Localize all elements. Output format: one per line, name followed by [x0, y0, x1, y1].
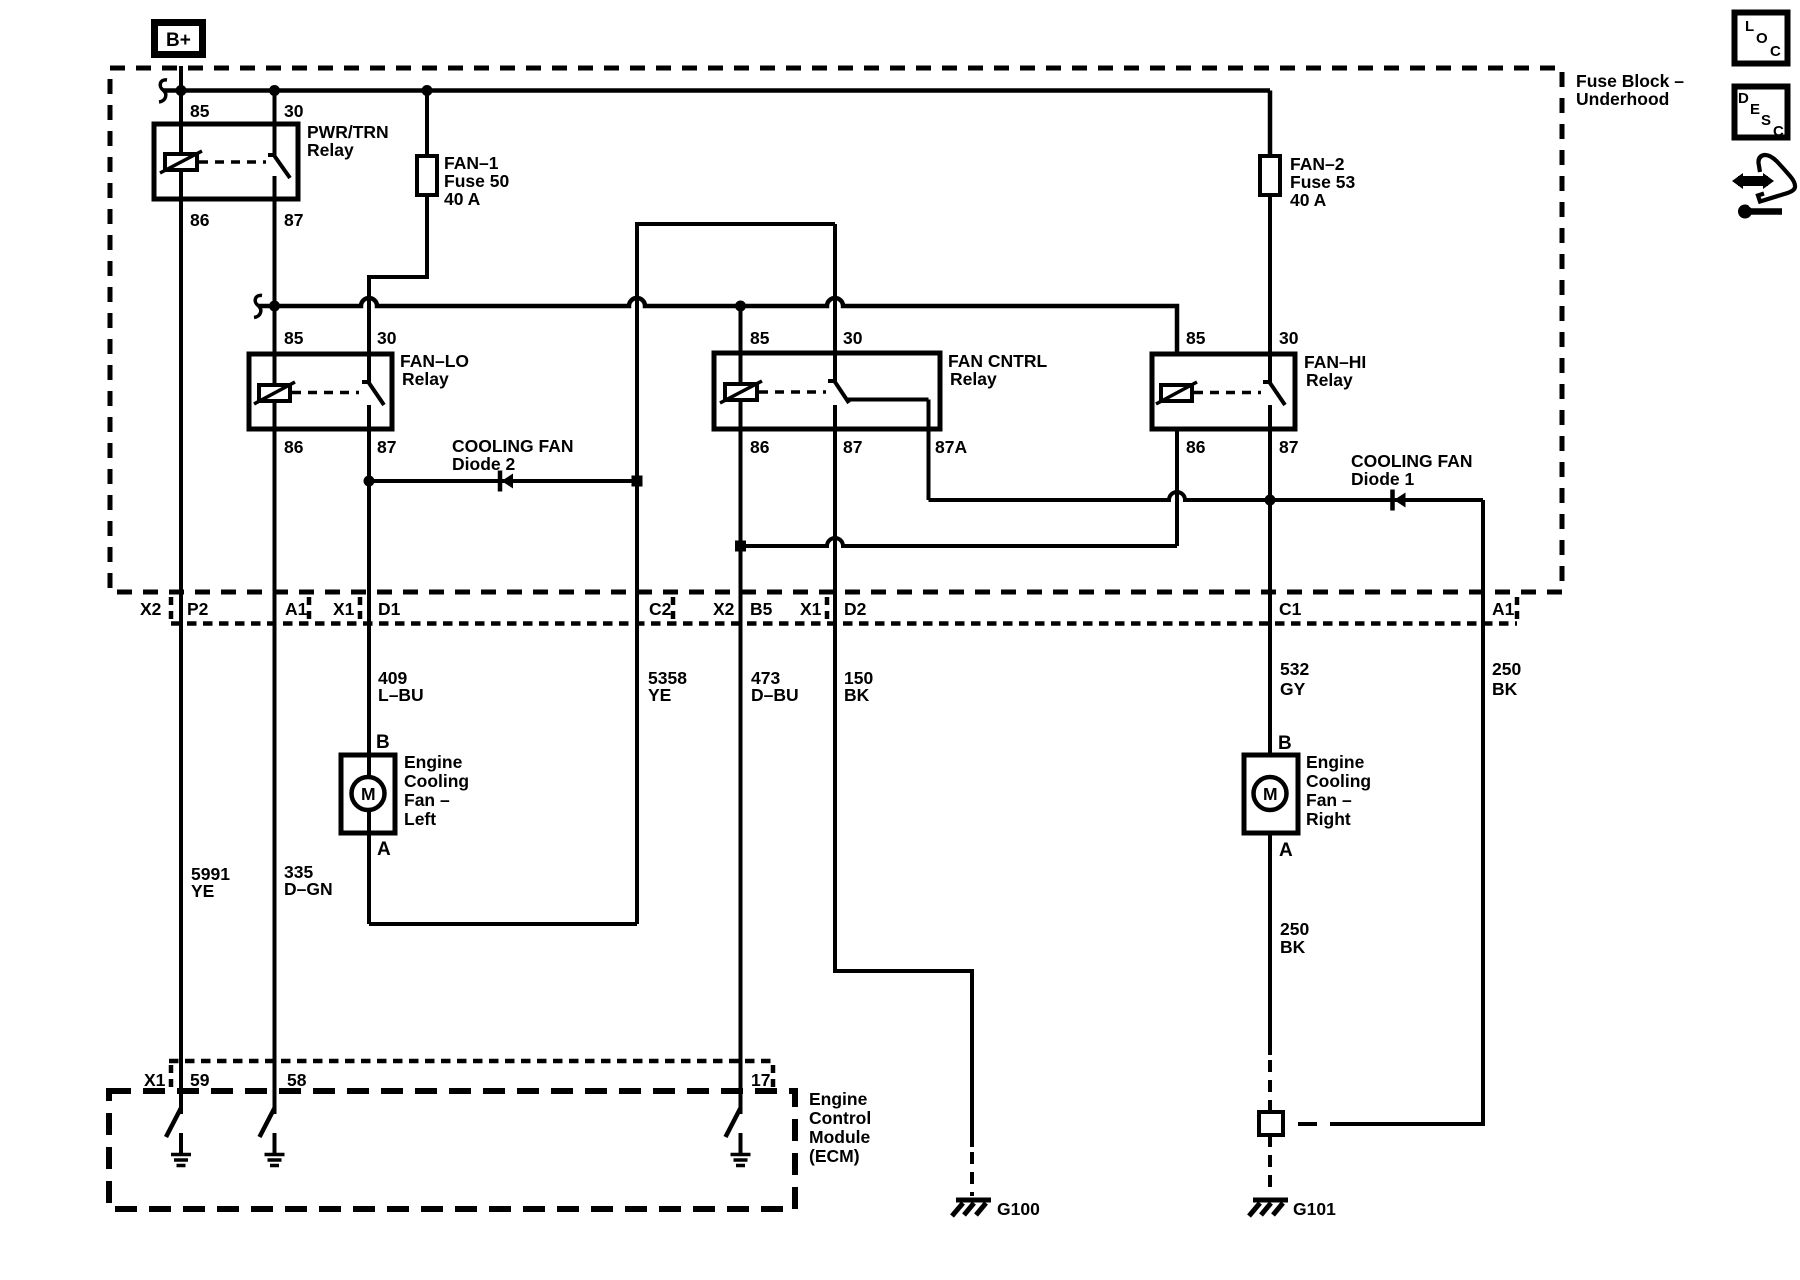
svg-text:Fuse 53: Fuse 53	[1290, 172, 1355, 192]
FAN CNTRL relay actuator dashed link	[759, 390, 826, 394]
svg-text:D: D	[1738, 90, 1749, 107]
svg-text:87A: 87A	[935, 437, 967, 457]
svg-text:30: 30	[843, 328, 863, 348]
svg-text:86: 86	[284, 437, 304, 457]
wire-end curl at left of second bus	[254, 295, 262, 317]
svg-text:D1: D1	[378, 599, 401, 619]
svg-text:Cooling: Cooling	[404, 771, 469, 791]
svg-text:Diode 1: Diode 1	[1351, 469, 1414, 489]
wire main B+ bus (top) with corner down to FAN-2 fuse	[163, 91, 1270, 157]
svg-text:B: B	[1278, 733, 1292, 754]
wire dashed lead G101 splice to ground G101	[1268, 1135, 1272, 1191]
svg-text:85: 85	[190, 101, 210, 121]
svg-text:YE: YE	[191, 881, 214, 901]
PWR/TRN relay actuator dashed link	[199, 160, 266, 164]
svg-text:O: O	[1756, 30, 1768, 47]
svg-text:Fuse 50: Fuse 50	[444, 171, 509, 191]
svg-text:FAN–2: FAN–2	[1290, 154, 1345, 174]
wire motor right A down (250 BK)	[1268, 833, 1272, 1055]
wire FAN-HI 86 to FAN CNTRL 86 link	[741, 429, 1178, 546]
svg-text:COOLING FAN: COOLING FAN	[452, 436, 574, 456]
FAN CNTRL relay switch blade	[828, 381, 849, 403]
B+ battery positive symbol	[155, 23, 203, 55]
svg-text:M: M	[1263, 784, 1278, 804]
svg-text:85: 85	[750, 328, 770, 348]
svg-text:Engine: Engine	[809, 1089, 868, 1109]
svg-text:30: 30	[377, 328, 397, 348]
junction dot bus/FAN-1 fuse	[422, 85, 433, 96]
svg-text:87: 87	[284, 210, 303, 230]
svg-text:FAN–1: FAN–1	[444, 153, 499, 173]
svg-text:A: A	[1279, 840, 1293, 861]
svg-text:Underhood: Underhood	[1576, 89, 1669, 109]
svg-text:Left: Left	[404, 809, 436, 829]
svg-text:X1: X1	[800, 599, 822, 619]
wire U-turn from motor left A up to C2 (5358 YE) and crossover top link	[369, 224, 835, 924]
FAN-LO relay	[249, 328, 469, 457]
fuse block underhood dashed border	[110, 68, 1562, 592]
svg-text:M: M	[361, 784, 376, 804]
svg-text:85: 85	[1186, 328, 1206, 348]
wire FAN-1 fuse output jog to FAN-LO pin30	[369, 195, 427, 383]
wire FAN-LO pin87 down through motor left to U-turn (409 L-BU)	[367, 405, 371, 924]
FAN-HI relay switch blade	[1263, 382, 1285, 405]
svg-text:Fan –: Fan –	[1306, 790, 1352, 810]
ground G100	[952, 1200, 991, 1216]
svg-text:P2: P2	[187, 599, 209, 619]
wire dashed lead motor right to G101 splice	[1268, 1060, 1272, 1113]
svg-text:X1: X1	[144, 1070, 166, 1090]
svg-text:FAN–LO: FAN–LO	[400, 351, 469, 371]
svg-text:59: 59	[190, 1070, 210, 1090]
FAN-HI relay coil	[1161, 385, 1192, 401]
svg-text:Engine: Engine	[1306, 752, 1365, 772]
svg-text:X1: X1	[333, 599, 355, 619]
engine cooling fan right motor	[1244, 733, 1371, 861]
wire PWR/TRN pin85 coil feed down to ECM pin 59 (5991 YE)	[179, 91, 183, 1115]
wire PWR/TRN pin30 from bus	[273, 91, 277, 158]
svg-text:Diode 2: Diode 2	[452, 454, 515, 474]
FAN-2 fuse 53	[1260, 156, 1280, 195]
ground symbol inside ECM pin 59	[171, 1133, 191, 1166]
ECM low-side driver switch pin 17	[726, 1108, 741, 1137]
svg-text:G101: G101	[1293, 1199, 1336, 1219]
svg-text:COOLING FAN: COOLING FAN	[1351, 451, 1473, 471]
connector separator after C2	[671, 597, 676, 620]
svg-text:C2: C2	[649, 599, 672, 619]
svg-text:Relay: Relay	[1306, 370, 1353, 390]
svg-text:86: 86	[1186, 437, 1206, 457]
svg-text:(ECM): (ECM)	[809, 1146, 860, 1166]
ECM connector dashed line	[169, 1059, 775, 1064]
svg-text:Fan –: Fan –	[404, 790, 450, 810]
engine control module dashed box	[109, 1091, 795, 1209]
FAN-HI relay	[1152, 328, 1366, 457]
PWR/TRN relay switch blade	[268, 155, 290, 178]
svg-text:G100: G100	[997, 1199, 1040, 1219]
junction dot coil bus/FAN CNTRL 85	[735, 301, 746, 312]
svg-text:250: 250	[1280, 919, 1309, 939]
ECM connector separator X1	[169, 1065, 174, 1088]
wire dashed link from 250 BK to G101 splice box	[1288, 1122, 1349, 1126]
svg-text:Module: Module	[809, 1127, 871, 1147]
svg-text:A: A	[377, 839, 391, 860]
FAN-HI relay actuator dashed link	[1194, 391, 1261, 395]
svg-text:BK: BK	[1492, 679, 1518, 699]
ground symbol inside ECM pin 17	[731, 1133, 751, 1166]
junction dot diode1/FAN-HI 87	[1265, 495, 1276, 506]
connector separator X2/P2	[169, 597, 174, 620]
svg-text:B+: B+	[166, 30, 191, 51]
PWR/TRN relay coil	[165, 154, 197, 170]
engine cooling fan left motor	[341, 732, 469, 860]
wire dashed lead to ground G100	[970, 1152, 974, 1196]
svg-text:Relay: Relay	[950, 369, 997, 389]
svg-text:30: 30	[1279, 328, 1299, 348]
wire relay coil bus (second bus) with hops, corner down to FAN-HI pin85	[258, 298, 1177, 354]
svg-text:86: 86	[190, 210, 210, 230]
FAN-LO relay coil	[259, 385, 290, 401]
svg-text:Relay: Relay	[307, 140, 354, 160]
FAN CNTRL relay coil	[725, 384, 757, 400]
svg-text:Control: Control	[809, 1108, 871, 1128]
service information icon (arrows and wrench)	[1732, 155, 1795, 219]
LOC link box	[1735, 13, 1788, 64]
svg-text:YE: YE	[648, 685, 671, 705]
svg-text:17: 17	[751, 1070, 770, 1090]
svg-text:532: 532	[1280, 659, 1309, 679]
svg-text:D–GN: D–GN	[284, 879, 333, 899]
svg-text:Cooling: Cooling	[1306, 771, 1371, 791]
svg-text:B: B	[376, 732, 390, 753]
svg-text:PWR/TRN: PWR/TRN	[307, 122, 389, 142]
ECM low-side driver switch pin 59	[166, 1108, 181, 1137]
DESC link box	[1735, 87, 1788, 141]
svg-text:40 A: 40 A	[1290, 190, 1327, 210]
svg-text:30: 30	[284, 101, 304, 121]
wire FAN-HI pin87 down through C1 to motor right (532 GY)	[1268, 405, 1272, 755]
wire cooling fan diode 2 link	[369, 479, 637, 483]
connector separator X1/D2	[825, 597, 830, 620]
ECM connector separator right	[771, 1065, 776, 1088]
motor left M circle	[352, 777, 385, 810]
svg-text:Right: Right	[1306, 809, 1351, 829]
ECM low-side driver switch pin 58	[260, 1108, 275, 1137]
junction dot coil bus/FAN-LO 85	[269, 301, 280, 312]
svg-text:D–BU: D–BU	[751, 685, 799, 705]
FAN-1 fuse 50	[417, 156, 437, 195]
svg-text:C1: C1	[1279, 599, 1302, 619]
wire FAN CNTRL 87A to diode 1 and to A1 (250 BK right)	[846, 400, 1483, 1125]
motor right M circle	[1254, 777, 1287, 810]
wire B+ feed to bus	[179, 66, 183, 90]
svg-text:X2: X2	[140, 599, 162, 619]
svg-text:Relay: Relay	[402, 369, 449, 389]
svg-text:85: 85	[284, 328, 304, 348]
wire FAN CNTRL pin30 top feed	[833, 224, 837, 383]
junction dot diode2/5358 YE wire	[632, 476, 643, 487]
svg-text:BK: BK	[844, 685, 870, 705]
wire FAN-2 fuse output to FAN-HI pin30	[1268, 195, 1272, 383]
connector separator X1/D1	[358, 597, 363, 620]
wire-end curl at left of top bus	[159, 80, 167, 102]
svg-text:86: 86	[750, 437, 770, 457]
wire FAN-1 fuse feed from bus	[425, 91, 429, 157]
svg-text:40 A: 40 A	[444, 189, 481, 209]
svg-text:250: 250	[1492, 659, 1521, 679]
cooling fan diode 2 cathode bar	[498, 471, 503, 492]
svg-text:FAN–HI: FAN–HI	[1304, 352, 1366, 372]
svg-text:BK: BK	[1280, 937, 1306, 957]
connector row dashed line under fuse block	[171, 621, 1517, 626]
PWR/TRN relay	[154, 101, 389, 230]
connector separator after A1 right	[1515, 597, 1520, 620]
junction dot 473 D-BU / 86 link	[735, 541, 746, 552]
FAN CNTRL relay	[714, 328, 1047, 457]
FAN-LO relay actuator dashed link	[292, 391, 359, 395]
junction dot bus/B+	[176, 85, 187, 96]
svg-text:B5: B5	[750, 599, 773, 619]
junction dot bus/PWR-TRN 30	[269, 85, 280, 96]
svg-text:58: 58	[287, 1070, 307, 1090]
svg-text:C: C	[1770, 43, 1781, 60]
FAN-LO relay switch blade	[362, 382, 384, 405]
svg-text:FAN CNTRL: FAN CNTRL	[948, 351, 1047, 371]
svg-text:87: 87	[377, 437, 396, 457]
cooling fan diode 1 arrow	[1394, 493, 1406, 508]
svg-text:GY: GY	[1280, 679, 1306, 699]
svg-text:A1: A1	[1492, 599, 1515, 619]
wire PWR/TRN pin87 down through FAN-LO coil to ECM pin 58 (335 D-GN)	[273, 176, 277, 1114]
svg-text:L–BU: L–BU	[378, 685, 424, 705]
connector separator after A1	[307, 597, 312, 620]
junction dot diode2/FAN-LO 87	[364, 476, 375, 487]
svg-text:Engine: Engine	[404, 752, 463, 772]
svg-text:X2: X2	[713, 599, 735, 619]
ground G101	[1249, 1200, 1288, 1216]
svg-text:A1: A1	[285, 599, 308, 619]
svg-text:S: S	[1761, 112, 1771, 129]
svg-text:L: L	[1745, 18, 1754, 35]
wire FAN CNTRL coil pin85-86 down to ECM pin 17 (473 D-BU)	[739, 306, 743, 1114]
cooling fan diode 1 cathode bar	[1390, 490, 1395, 511]
cooling fan diode 2 arrow	[502, 474, 514, 489]
svg-text:Fuse Block –: Fuse Block –	[1576, 71, 1684, 91]
G101 splice box	[1259, 1112, 1283, 1135]
svg-text:D2: D2	[844, 599, 867, 619]
ground symbol inside ECM pin 58	[265, 1133, 285, 1166]
svg-text:C: C	[1773, 123, 1784, 140]
svg-text:E: E	[1750, 101, 1760, 118]
svg-text:87: 87	[1279, 437, 1298, 457]
svg-text:87: 87	[843, 437, 862, 457]
wire FAN CNTRL pin87 down to G100 (150 BK)	[835, 405, 972, 1147]
